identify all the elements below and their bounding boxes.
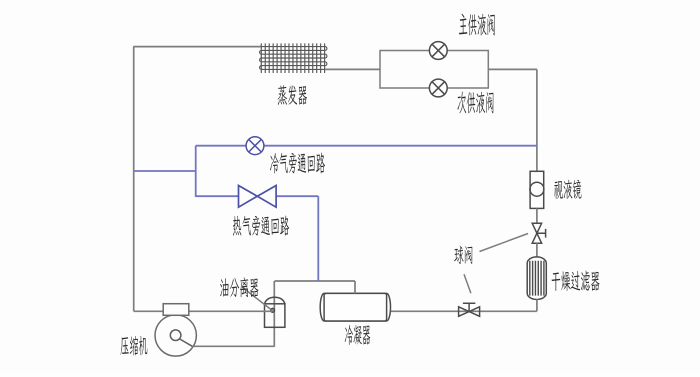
secondary supply valve (circle-X) [429,79,447,97]
label: condenser [345,325,370,345]
evaporator coil (serpentine + fins) [260,47,327,70]
label: evaporator [278,85,307,105]
wire: top horizontal to evaporator inlet [133,46,261,48]
supply-valve parallel block frame [380,51,488,89]
wire: compressor discharge horizontal [194,345,274,347]
wire: valve block outlet to right line [488,68,537,70]
condenser (horizontal vessel) [320,293,390,321]
label: ball valve [454,246,472,264]
wire: hot gas bypass right segment (blue) [276,195,318,197]
ball valve (bowtie with T handle) [459,307,480,317]
main supply valve (circle-X) [429,42,447,60]
wire: left line to compressor box [134,310,164,312]
wire: condenser outlet line through ball valve [390,310,537,312]
wire: hot gas bypass down to condenser line (blue) [317,196,319,281]
wire: valve to drier-filter [536,243,538,257]
needle/ball valve (vertical bowtie with side handle) [532,223,541,243]
compressor (circle with hub and mount box) [155,315,196,356]
leader: ball valve label to ball valve [464,274,471,293]
wire: bypass vertical (blue) [195,146,197,197]
label: oil separator [220,277,258,297]
leader: ball valve label to needle valve [480,234,529,252]
wire: condenser top stub [354,281,356,293]
wire: sight glass to needle valve [536,208,538,223]
leader: oil separator label [242,287,271,310]
sight glass [530,171,544,208]
wire: left vertical main suction line [133,47,135,312]
wire: hot gas bypass left segment (blue) [196,195,239,197]
cold gas bypass valve (blue circle-X) [246,137,264,155]
label: compressor [121,336,148,355]
wire: cold gas bypass line (blue) [196,145,537,147]
wire: oil separator to condenser horizontal [275,280,356,282]
wire: evaporator outlet to valve block [325,68,380,70]
wire: compressor box to oil separator inlet [188,310,272,312]
wire: filter down to bottom line [536,299,538,311]
label: main supply valve [459,14,495,36]
wire: oil separator internal line top-to-bottom [273,281,275,347]
wire: bypass takeoff (blue) [134,170,196,172]
drier filter (striped capsule) [527,257,546,300]
label: cold gas bypass loop [270,153,325,174]
wire: right vertical (liquid line) upper [536,69,538,171]
label: drier filter [552,271,600,291]
label: hot gas bypass loop [233,216,289,236]
hot gas bypass valve (blue bowtie) [239,186,277,208]
label: sight glass [554,180,581,199]
label: secondary supply valve [457,91,493,113]
